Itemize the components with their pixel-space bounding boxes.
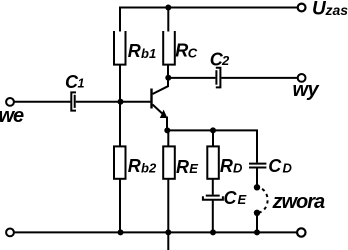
node rail dot RE: [165, 229, 171, 235]
label RE: [176, 157, 198, 177]
node top rail junction: [165, 5, 171, 11]
label Rb2: [128, 156, 157, 176]
terminal bottom left: [6, 229, 14, 237]
capacitor C2 right bracket plate: [216, 68, 221, 88]
svg-text:zas: zas: [325, 2, 348, 18]
wire input to C1: [14, 101, 70, 103]
label CD: [268, 156, 292, 176]
svg-text:R: R: [220, 156, 233, 176]
node collector junction: [165, 75, 171, 81]
capacitor CD bottom plate: [249, 167, 266, 169]
wire C2 to wy output: [221, 77, 297, 79]
transistor Q1 base bar: [150, 89, 152, 109]
terminal bottom right: [297, 228, 305, 236]
resistor RE: [163, 146, 175, 178]
node base junction dot: [118, 99, 124, 105]
wire CE to ground rail: [212, 200, 214, 233]
svg-text:R: R: [175, 40, 188, 60]
label Uzas: [312, 0, 348, 19]
node rail dot Rb2: [118, 229, 124, 235]
svg-text:R: R: [128, 156, 141, 176]
wire emitter branch to CD corner: [168, 130, 257, 162]
transistor Q1 collector lead: [153, 65, 169, 94]
wire top supply rail: [119, 7, 298, 9]
svg-text:zwora: zwora: [272, 191, 326, 213]
svg-text:1: 1: [78, 77, 85, 91]
wire CD to zwora: [256, 168, 258, 188]
svg-text:D: D: [283, 161, 293, 176]
svg-text:we: we: [0, 105, 24, 127]
capacitor C2 left plate: [215, 70, 217, 85]
node zwora top dot: [254, 184, 260, 190]
svg-text:C: C: [224, 188, 238, 208]
wire zwora to ground rail: [256, 213, 258, 233]
wire bottom ground rail: [14, 231, 297, 233]
svg-text:b2: b2: [141, 161, 157, 176]
svg-text:C: C: [188, 46, 198, 61]
label Rb1: [128, 41, 156, 61]
wire collector to C2: [168, 77, 215, 79]
svg-text:E: E: [189, 161, 198, 176]
transistor Q1 emitter lead: [153, 105, 168, 131]
node rail dot CE: [210, 229, 216, 235]
wire C1 to transistor base: [76, 101, 151, 103]
wire Rb2 bottom to ground rail: [119, 179, 121, 233]
label RD: [220, 156, 243, 176]
wire RE bottom through rail to bottom edge: [167, 179, 169, 250]
node zwora bottom dot: [254, 210, 260, 216]
terminal wy output: [298, 74, 306, 82]
svg-text:wy: wy: [293, 79, 320, 101]
svg-text:R: R: [176, 157, 189, 177]
svg-text:C: C: [268, 156, 282, 176]
capacitor CD top plate: [249, 163, 266, 165]
svg-text:R: R: [128, 41, 141, 61]
label C2: [210, 50, 230, 70]
capacitor CE bottom bracket plate: [203, 196, 223, 200]
node emitter junction: [164, 127, 170, 133]
wire branch down to RD: [212, 130, 214, 146]
wire from rail junction down into RC: [167, 8, 169, 32]
resistor RC: [163, 31, 175, 65]
label C1: [65, 72, 85, 92]
capacitor C1 left bracket plate: [71, 92, 76, 110]
resistor Rb1: [114, 31, 126, 65]
svg-text:2: 2: [221, 53, 230, 68]
resistor RD: [207, 146, 219, 178]
resistor Rb2: [114, 146, 126, 178]
svg-text:b1: b1: [141, 46, 156, 61]
wire from rail corner down into Rb1: [119, 7, 121, 32]
wire emitter down into RE: [167, 130, 169, 146]
terminal Uzas: [298, 4, 306, 12]
capacitor CE top plate: [206, 195, 220, 197]
svg-text:E: E: [238, 192, 247, 207]
wire Rb1 bottom down to Rb2 top (base divider column): [119, 65, 121, 147]
zwora dashed jumper arc: [257, 187, 268, 213]
node RD branch junction: [210, 127, 216, 133]
label CE: [224, 188, 247, 208]
transistor Q1 emitter arrow: [160, 110, 168, 118]
wire RD bottom to CE: [212, 179, 214, 195]
node rail dot zwora: [254, 229, 260, 235]
label RC: [175, 40, 198, 60]
capacitor C1 right plate: [74, 95, 76, 108]
terminal we input: [6, 98, 14, 106]
svg-text:D: D: [233, 160, 243, 175]
